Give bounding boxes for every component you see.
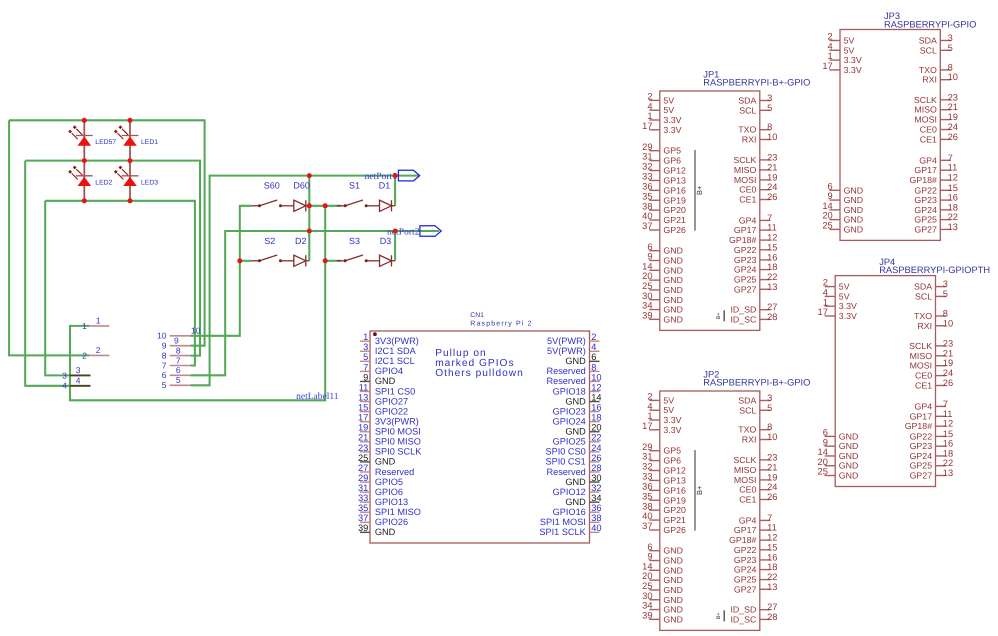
svg-text:13: 13 bbox=[358, 392, 368, 402]
svg-text:20: 20 bbox=[642, 571, 652, 581]
svg-text:GND: GND bbox=[663, 295, 683, 305]
svg-text:GP23: GP23 bbox=[914, 195, 937, 205]
svg-text:Raspberry Pi 2: Raspberry Pi 2 bbox=[470, 320, 532, 328]
svg-text:GPIO22: GPIO22 bbox=[375, 406, 408, 416]
svg-text:GP23: GP23 bbox=[734, 255, 757, 265]
svg-text:24: 24 bbox=[767, 482, 777, 492]
svg-text:MISO: MISO bbox=[734, 465, 757, 475]
svg-text:2: 2 bbox=[591, 332, 596, 342]
svg-text:18: 18 bbox=[767, 262, 777, 272]
svg-text:LED3: LED3 bbox=[141, 179, 158, 186]
svg-text:1: 1 bbox=[647, 411, 652, 421]
svg-text:GP22: GP22 bbox=[910, 431, 933, 441]
svg-text:8: 8 bbox=[948, 62, 953, 72]
svg-text:GP20: GP20 bbox=[663, 505, 686, 515]
svg-text:22: 22 bbox=[767, 272, 777, 282]
svg-text:31: 31 bbox=[642, 452, 652, 462]
svg-text:GP24: GP24 bbox=[734, 265, 757, 275]
svg-text:I2C1 SDA: I2C1 SDA bbox=[375, 346, 417, 356]
svg-text:15: 15 bbox=[358, 403, 368, 413]
svg-text:MISO: MISO bbox=[914, 105, 937, 115]
svg-text:GP13: GP13 bbox=[663, 475, 686, 485]
svg-text:GPIO23: GPIO23 bbox=[553, 406, 586, 416]
svg-text:TXO: TXO bbox=[919, 65, 937, 75]
svg-text:GP17: GP17 bbox=[734, 225, 757, 235]
svg-text:33: 33 bbox=[642, 472, 652, 482]
svg-text:8: 8 bbox=[767, 422, 772, 432]
svg-text:SPI0 SCLK: SPI0 SCLK bbox=[375, 447, 422, 457]
svg-text:GP6: GP6 bbox=[663, 456, 681, 466]
svg-text:7: 7 bbox=[162, 360, 167, 370]
svg-text:RXI: RXI bbox=[742, 435, 757, 445]
svg-text:23: 23 bbox=[943, 338, 953, 348]
svg-text:GND: GND bbox=[663, 265, 683, 275]
svg-text:GND: GND bbox=[663, 285, 683, 295]
svg-text:GP6: GP6 bbox=[663, 156, 681, 166]
svg-text:40: 40 bbox=[642, 211, 652, 221]
svg-text:3: 3 bbox=[76, 365, 81, 375]
svg-text:37: 37 bbox=[642, 521, 652, 531]
svg-text:14: 14 bbox=[822, 201, 832, 211]
svg-text:1: 1 bbox=[828, 51, 833, 61]
svg-text:36: 36 bbox=[642, 181, 652, 191]
svg-text:1: 1 bbox=[647, 111, 652, 121]
svg-text:31: 31 bbox=[358, 483, 368, 493]
svg-text:5V: 5V bbox=[844, 36, 855, 46]
svg-text:SDA: SDA bbox=[919, 36, 937, 46]
svg-text:34: 34 bbox=[642, 601, 652, 611]
svg-text:3: 3 bbox=[363, 342, 368, 352]
svg-text:21: 21 bbox=[948, 102, 958, 112]
svg-text:15: 15 bbox=[943, 429, 953, 439]
svg-text:5V: 5V bbox=[663, 105, 674, 115]
svg-text:36: 36 bbox=[591, 503, 601, 513]
svg-text:GP5: GP5 bbox=[663, 146, 681, 156]
svg-text:26: 26 bbox=[943, 378, 953, 388]
svg-text:GND: GND bbox=[844, 185, 864, 195]
svg-text:6: 6 bbox=[176, 365, 181, 375]
svg-text:33: 33 bbox=[358, 493, 368, 503]
svg-text:28: 28 bbox=[767, 312, 777, 322]
svg-text:5: 5 bbox=[943, 289, 948, 299]
svg-text:RASPBERRYPI-GPIO: RASPBERRYPI-GPIO bbox=[884, 19, 976, 29]
svg-text:16: 16 bbox=[948, 193, 958, 203]
svg-text:GND: GND bbox=[663, 305, 683, 315]
svg-text:Reserved: Reserved bbox=[546, 366, 585, 376]
svg-text:GND: GND bbox=[839, 441, 859, 451]
svg-text:D60: D60 bbox=[293, 180, 310, 190]
svg-text:CE0: CE0 bbox=[739, 485, 756, 495]
svg-text:GP25: GP25 bbox=[910, 461, 933, 471]
svg-text:RXI: RXI bbox=[922, 75, 937, 85]
svg-text:10: 10 bbox=[943, 318, 953, 328]
svg-text:GP12: GP12 bbox=[663, 466, 686, 476]
svg-text:29: 29 bbox=[642, 442, 652, 452]
svg-text:SPI0 CS1: SPI0 CS1 bbox=[545, 457, 585, 467]
svg-text:2: 2 bbox=[828, 32, 833, 42]
svg-text:14: 14 bbox=[642, 261, 652, 271]
svg-text:B+: B+ bbox=[716, 312, 722, 319]
svg-text:8: 8 bbox=[176, 345, 181, 355]
svg-text:GND: GND bbox=[663, 614, 683, 624]
svg-text:GP27: GP27 bbox=[734, 284, 757, 294]
svg-text:2: 2 bbox=[647, 92, 652, 102]
svg-text:9: 9 bbox=[828, 191, 833, 201]
svg-text:28: 28 bbox=[591, 463, 601, 473]
svg-text:3V3(PWR): 3V3(PWR) bbox=[375, 416, 419, 426]
svg-text:5: 5 bbox=[948, 43, 953, 53]
svg-text:Others pulldown: Others pulldown bbox=[435, 368, 524, 379]
svg-text:GPIO13: GPIO13 bbox=[375, 497, 408, 507]
svg-text:10: 10 bbox=[157, 331, 167, 341]
svg-text:13: 13 bbox=[767, 582, 777, 592]
svg-text:11: 11 bbox=[767, 223, 777, 233]
svg-text:11: 11 bbox=[948, 163, 958, 173]
svg-text:SPI0 MISO: SPI0 MISO bbox=[375, 437, 421, 447]
svg-text:GND: GND bbox=[663, 575, 683, 585]
svg-text:19: 19 bbox=[767, 472, 777, 482]
svg-text:GP4: GP4 bbox=[914, 401, 932, 411]
svg-text:3: 3 bbox=[62, 370, 67, 380]
svg-text:GND: GND bbox=[663, 565, 683, 575]
svg-text:GND: GND bbox=[663, 556, 683, 566]
svg-text:10: 10 bbox=[767, 432, 777, 442]
svg-text:LED2: LED2 bbox=[95, 179, 112, 186]
svg-text:GP18#: GP18# bbox=[729, 535, 756, 545]
svg-text:GPIO4: GPIO4 bbox=[375, 366, 403, 376]
svg-text:GND: GND bbox=[663, 256, 683, 266]
svg-text:11: 11 bbox=[943, 409, 953, 419]
svg-text:32: 32 bbox=[642, 462, 652, 472]
svg-text:LED57: LED57 bbox=[95, 139, 116, 146]
svg-text:MISO: MISO bbox=[734, 165, 757, 175]
svg-text:4: 4 bbox=[76, 376, 81, 386]
svg-text:12: 12 bbox=[943, 419, 953, 429]
svg-text:5: 5 bbox=[767, 403, 772, 413]
svg-text:7: 7 bbox=[767, 213, 772, 223]
svg-text:2: 2 bbox=[96, 345, 101, 355]
svg-text:GND: GND bbox=[663, 546, 683, 556]
svg-text:B+: B+ bbox=[695, 185, 704, 195]
svg-text:10: 10 bbox=[948, 72, 958, 82]
svg-text:17: 17 bbox=[642, 121, 652, 131]
svg-text:2: 2 bbox=[647, 392, 652, 402]
svg-text:SCLK: SCLK bbox=[733, 155, 756, 165]
svg-text:23: 23 bbox=[767, 152, 777, 162]
svg-text:4: 4 bbox=[62, 381, 67, 391]
svg-text:GND: GND bbox=[663, 585, 683, 595]
svg-text:GND: GND bbox=[375, 457, 396, 467]
svg-text:SPI1 MISO: SPI1 MISO bbox=[375, 507, 421, 517]
svg-text:5V: 5V bbox=[844, 45, 855, 55]
svg-text:30: 30 bbox=[642, 291, 652, 301]
svg-text:5V(PWR): 5V(PWR) bbox=[547, 346, 586, 356]
svg-text:16: 16 bbox=[767, 552, 777, 562]
svg-text:15: 15 bbox=[767, 242, 777, 252]
svg-text:RASPBERRYPI-B+-GPIO: RASPBERRYPI-B+-GPIO bbox=[703, 378, 810, 388]
svg-text:39: 39 bbox=[642, 610, 652, 620]
svg-text:36: 36 bbox=[642, 481, 652, 491]
svg-text:18: 18 bbox=[948, 202, 958, 212]
svg-text:GND: GND bbox=[663, 605, 683, 615]
svg-text:18: 18 bbox=[591, 413, 601, 423]
svg-text:GND: GND bbox=[663, 246, 683, 256]
svg-text:ID_SC: ID_SC bbox=[730, 314, 757, 324]
svg-text:12: 12 bbox=[767, 233, 777, 243]
svg-text:34: 34 bbox=[642, 301, 652, 311]
svg-text:3: 3 bbox=[767, 93, 772, 103]
svg-text:GP26: GP26 bbox=[663, 225, 686, 235]
svg-text:6: 6 bbox=[823, 428, 828, 438]
svg-text:SPI0 MOSI: SPI0 MOSI bbox=[375, 427, 421, 437]
svg-text:GP25: GP25 bbox=[734, 275, 757, 285]
svg-text:GND: GND bbox=[565, 356, 586, 366]
svg-text:Reserved: Reserved bbox=[546, 376, 585, 386]
svg-text:17: 17 bbox=[642, 421, 652, 431]
svg-text:GP21: GP21 bbox=[663, 515, 686, 525]
svg-text:5: 5 bbox=[767, 103, 772, 113]
svg-text:2: 2 bbox=[823, 278, 828, 288]
svg-text:netPort1: netPort1 bbox=[364, 171, 397, 182]
svg-text:SCLK: SCLK bbox=[914, 95, 937, 105]
svg-text:9: 9 bbox=[162, 341, 167, 351]
svg-text:GP4: GP4 bbox=[739, 515, 757, 525]
svg-text:GP4: GP4 bbox=[739, 215, 757, 225]
svg-text:GP27: GP27 bbox=[914, 224, 937, 234]
svg-text:3V3(PWR): 3V3(PWR) bbox=[375, 336, 419, 346]
svg-text:17: 17 bbox=[818, 307, 828, 317]
svg-text:GP23: GP23 bbox=[910, 441, 933, 451]
svg-text:SCL: SCL bbox=[915, 291, 932, 301]
svg-text:netPort2: netPort2 bbox=[387, 227, 420, 238]
svg-text:B+: B+ bbox=[716, 612, 722, 619]
svg-text:21: 21 bbox=[767, 162, 777, 172]
svg-text:10: 10 bbox=[191, 326, 201, 336]
svg-text:5: 5 bbox=[162, 380, 167, 390]
svg-text:MISO: MISO bbox=[910, 351, 933, 361]
svg-text:26: 26 bbox=[948, 132, 958, 142]
svg-text:GND: GND bbox=[375, 527, 396, 537]
svg-text:9: 9 bbox=[174, 336, 179, 346]
svg-text:4: 4 bbox=[828, 41, 833, 51]
svg-text:22: 22 bbox=[591, 433, 601, 443]
svg-text:RXI: RXI bbox=[917, 321, 932, 331]
svg-text:35: 35 bbox=[358, 503, 368, 513]
svg-text:12: 12 bbox=[948, 173, 958, 183]
svg-text:39: 39 bbox=[642, 310, 652, 320]
svg-text:19: 19 bbox=[943, 358, 953, 368]
svg-text:MOSI: MOSI bbox=[734, 175, 756, 185]
svg-text:7: 7 bbox=[943, 399, 948, 409]
svg-text:3.3V: 3.3V bbox=[663, 415, 681, 425]
svg-text:38: 38 bbox=[642, 501, 652, 511]
svg-text:8: 8 bbox=[591, 362, 596, 372]
svg-text:24: 24 bbox=[767, 182, 777, 192]
svg-text:1: 1 bbox=[96, 316, 101, 326]
svg-text:RXI: RXI bbox=[742, 135, 757, 145]
svg-text:ID_SC: ID_SC bbox=[730, 614, 757, 624]
svg-text:LED1: LED1 bbox=[141, 139, 158, 146]
svg-text:5V: 5V bbox=[839, 291, 850, 301]
svg-text:14: 14 bbox=[642, 561, 652, 571]
svg-text:27: 27 bbox=[767, 302, 777, 312]
svg-text:S60: S60 bbox=[264, 180, 280, 190]
svg-text:30: 30 bbox=[642, 591, 652, 601]
svg-text:39: 39 bbox=[358, 523, 368, 533]
svg-text:7: 7 bbox=[767, 513, 772, 523]
svg-text:GP19: GP19 bbox=[663, 195, 686, 205]
svg-text:GP18#: GP18# bbox=[910, 175, 937, 185]
svg-text:30: 30 bbox=[591, 473, 601, 483]
svg-text:Reserved: Reserved bbox=[546, 467, 585, 477]
svg-text:GND: GND bbox=[839, 461, 859, 471]
svg-text:GND: GND bbox=[844, 205, 864, 215]
svg-text:MOSI: MOSI bbox=[734, 475, 756, 485]
svg-text:21: 21 bbox=[358, 433, 368, 443]
svg-text:8: 8 bbox=[767, 122, 772, 132]
svg-text:6: 6 bbox=[591, 352, 596, 362]
svg-text:28: 28 bbox=[767, 612, 777, 622]
svg-text:SCLK: SCLK bbox=[909, 341, 932, 351]
svg-text:25: 25 bbox=[358, 453, 368, 463]
svg-text:GP20: GP20 bbox=[663, 205, 686, 215]
svg-text:16: 16 bbox=[767, 252, 777, 262]
svg-text:8: 8 bbox=[162, 351, 167, 361]
svg-text:12: 12 bbox=[767, 533, 777, 543]
svg-text:S2: S2 bbox=[264, 236, 275, 246]
svg-text:GPIO24: GPIO24 bbox=[553, 416, 586, 426]
svg-text:TXO: TXO bbox=[738, 125, 756, 135]
svg-text:GND: GND bbox=[375, 376, 396, 386]
svg-text:GPIO25: GPIO25 bbox=[553, 437, 586, 447]
svg-text:CN1: CN1 bbox=[470, 312, 484, 319]
svg-text:MOSI: MOSI bbox=[910, 361, 932, 371]
svg-text:RASPBERRYPI-GPIOPTH: RASPBERRYPI-GPIOPTH bbox=[879, 265, 990, 275]
svg-text:GP26: GP26 bbox=[663, 525, 686, 535]
svg-text:GND: GND bbox=[844, 224, 864, 234]
svg-text:5V(PWR): 5V(PWR) bbox=[547, 336, 586, 346]
svg-text:29: 29 bbox=[642, 142, 652, 152]
svg-text:32: 32 bbox=[591, 483, 601, 493]
svg-text:6: 6 bbox=[828, 181, 833, 191]
svg-text:CE0: CE0 bbox=[915, 371, 932, 381]
svg-text:ID_SD: ID_SD bbox=[730, 605, 756, 615]
svg-text:7: 7 bbox=[363, 362, 368, 372]
svg-text:GPIO12: GPIO12 bbox=[553, 487, 586, 497]
svg-text:4: 4 bbox=[647, 101, 652, 111]
svg-text:CE0: CE0 bbox=[920, 125, 937, 135]
svg-text:GND: GND bbox=[839, 451, 859, 461]
svg-text:GP24: GP24 bbox=[914, 205, 937, 215]
svg-text:10: 10 bbox=[767, 132, 777, 142]
svg-text:25: 25 bbox=[642, 581, 652, 591]
svg-text:S1: S1 bbox=[349, 180, 360, 190]
svg-text:15: 15 bbox=[948, 183, 958, 193]
svg-text:23: 23 bbox=[358, 443, 368, 453]
svg-text:3: 3 bbox=[948, 33, 953, 43]
svg-text:GP17: GP17 bbox=[734, 525, 757, 535]
svg-text:GND: GND bbox=[565, 477, 586, 487]
svg-text:GP17: GP17 bbox=[910, 411, 933, 421]
svg-text:24: 24 bbox=[943, 368, 953, 378]
svg-text:32: 32 bbox=[642, 162, 652, 172]
svg-text:S3: S3 bbox=[349, 236, 360, 246]
svg-text:GP27: GP27 bbox=[910, 471, 933, 481]
svg-text:25: 25 bbox=[822, 221, 832, 231]
svg-text:GP19: GP19 bbox=[663, 495, 686, 505]
svg-text:GP5: GP5 bbox=[663, 446, 681, 456]
svg-text:17: 17 bbox=[358, 413, 368, 423]
svg-text:Reserved: Reserved bbox=[375, 467, 414, 477]
svg-text:GND: GND bbox=[565, 396, 586, 406]
svg-text:37: 37 bbox=[358, 513, 368, 523]
svg-text:3.3V: 3.3V bbox=[663, 425, 681, 435]
svg-text:GP18#: GP18# bbox=[729, 235, 756, 245]
svg-text:19: 19 bbox=[767, 172, 777, 182]
svg-text:TXO: TXO bbox=[738, 425, 756, 435]
svg-text:SPI1 CS0: SPI1 CS0 bbox=[375, 386, 415, 396]
svg-text:SCLK: SCLK bbox=[733, 455, 756, 465]
svg-text:3.3V: 3.3V bbox=[839, 311, 857, 321]
svg-text:GND: GND bbox=[839, 431, 859, 441]
svg-text:35: 35 bbox=[642, 491, 652, 501]
svg-text:31: 31 bbox=[642, 152, 652, 162]
svg-text:23: 23 bbox=[767, 452, 777, 462]
svg-text:12: 12 bbox=[591, 382, 601, 392]
svg-text:6: 6 bbox=[647, 542, 652, 552]
svg-text:SDA: SDA bbox=[914, 282, 932, 292]
svg-text:TXO: TXO bbox=[914, 311, 932, 321]
svg-text:10: 10 bbox=[591, 372, 601, 382]
svg-text:4: 4 bbox=[591, 342, 596, 352]
svg-text:GPIO18: GPIO18 bbox=[553, 386, 586, 396]
svg-text:GP24: GP24 bbox=[734, 565, 757, 575]
svg-text:GP13: GP13 bbox=[663, 175, 686, 185]
svg-text:MOSI: MOSI bbox=[914, 115, 936, 125]
svg-text:27: 27 bbox=[767, 602, 777, 612]
svg-text:GP21: GP21 bbox=[663, 215, 686, 225]
svg-text:19: 19 bbox=[358, 423, 368, 433]
svg-text:7: 7 bbox=[948, 153, 953, 163]
svg-text:GPIO5: GPIO5 bbox=[375, 477, 403, 487]
svg-text:9: 9 bbox=[647, 552, 652, 562]
svg-text:33: 33 bbox=[642, 172, 652, 182]
svg-text:3: 3 bbox=[767, 393, 772, 403]
svg-text:GP23: GP23 bbox=[734, 555, 757, 565]
svg-text:37: 37 bbox=[642, 221, 652, 231]
svg-text:5V: 5V bbox=[663, 395, 674, 405]
svg-text:GP22: GP22 bbox=[734, 545, 757, 555]
svg-text:GND: GND bbox=[663, 595, 683, 605]
svg-text:CE1: CE1 bbox=[915, 381, 932, 391]
svg-text:GP27: GP27 bbox=[734, 584, 757, 594]
svg-text:3.3V: 3.3V bbox=[844, 55, 862, 65]
svg-text:5: 5 bbox=[363, 352, 368, 362]
svg-text:25: 25 bbox=[818, 467, 828, 477]
svg-text:20: 20 bbox=[591, 423, 601, 433]
svg-text:CE1: CE1 bbox=[739, 495, 756, 505]
svg-text:23: 23 bbox=[948, 92, 958, 102]
svg-text:11: 11 bbox=[359, 382, 369, 392]
svg-text:27: 27 bbox=[358, 463, 368, 473]
svg-text:8: 8 bbox=[943, 309, 948, 319]
svg-text:SPI0 CS0: SPI0 CS0 bbox=[545, 447, 585, 457]
svg-text:22: 22 bbox=[767, 572, 777, 582]
svg-text:ID_SD: ID_SD bbox=[730, 305, 756, 315]
svg-text:GND: GND bbox=[565, 427, 586, 437]
svg-text:40: 40 bbox=[642, 511, 652, 521]
svg-text:24: 24 bbox=[948, 122, 958, 132]
